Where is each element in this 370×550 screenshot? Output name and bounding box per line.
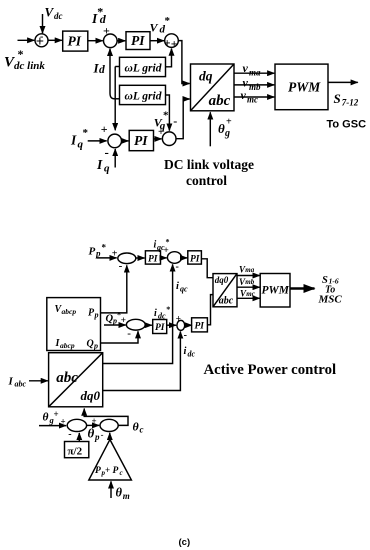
svg-text:MSC: MSC: [318, 293, 343, 305]
svg-text:q: q: [104, 163, 110, 175]
svg-text:abc: abc: [219, 296, 234, 307]
svg-text:-: -: [105, 145, 109, 160]
svg-text:I: I: [96, 157, 103, 172]
svg-text:θ: θ: [218, 121, 225, 136]
svg-text:p: p: [93, 342, 98, 351]
svg-text:mc: mc: [246, 290, 255, 298]
svg-text:Active Power control: Active Power control: [204, 362, 337, 378]
svg-text:i: i: [154, 308, 157, 319]
svg-text:PI: PI: [131, 33, 145, 48]
svg-text:p: p: [94, 432, 100, 442]
svg-text:PI: PI: [155, 323, 165, 333]
svg-text:*: *: [102, 243, 107, 253]
svg-text:-: -: [119, 260, 123, 272]
svg-text:control: control: [186, 173, 227, 188]
svg-text:θ: θ: [43, 412, 49, 424]
svg-text:PI: PI: [68, 34, 82, 49]
svg-text:-: -: [68, 429, 71, 440]
svg-text:i: i: [176, 281, 179, 292]
svg-text:+: +: [105, 465, 110, 475]
svg-text:θ: θ: [116, 486, 123, 500]
svg-text:p: p: [94, 311, 99, 320]
svg-text:+: +: [103, 24, 110, 38]
svg-text:-: -: [184, 330, 187, 341]
svg-text:dq0: dq0: [215, 275, 229, 285]
svg-text:θ: θ: [88, 425, 95, 440]
svg-text:+: +: [171, 37, 178, 51]
svg-text:v: v: [243, 61, 249, 75]
svg-text:S: S: [334, 91, 341, 106]
svg-text:qc: qc: [180, 285, 188, 294]
svg-text:abc: abc: [15, 380, 27, 389]
svg-text:PWM: PWM: [288, 80, 321, 95]
svg-text:I: I: [70, 133, 77, 148]
svg-text:To GSC: To GSC: [327, 118, 367, 130]
svg-text:V: V: [150, 21, 159, 35]
svg-text:+: +: [61, 417, 66, 427]
svg-text:7-12: 7-12: [342, 98, 359, 108]
svg-text:+: +: [112, 248, 118, 259]
svg-text:mb: mb: [249, 82, 261, 92]
svg-text:θ: θ: [133, 420, 140, 434]
svg-text:-: -: [176, 262, 179, 273]
svg-text:+: +: [164, 36, 171, 50]
svg-text:I: I: [8, 376, 14, 388]
svg-text:abcp: abcp: [62, 307, 77, 316]
svg-text:PI: PI: [195, 322, 205, 332]
svg-text:c: c: [120, 469, 123, 477]
svg-text:ωL grid: ωL grid: [125, 91, 162, 103]
svg-text:-: -: [40, 32, 43, 43]
svg-text:*: *: [165, 15, 171, 27]
svg-text:Q: Q: [87, 339, 94, 350]
svg-text:*: *: [166, 238, 170, 247]
svg-text:PWM: PWM: [262, 285, 290, 297]
svg-text:DC link voltage: DC link voltage: [164, 157, 254, 172]
svg-text:c: c: [140, 425, 144, 435]
svg-text:+: +: [176, 315, 181, 325]
svg-text:ωL grid: ωL grid: [125, 63, 162, 75]
svg-text:q: q: [78, 139, 84, 151]
svg-text:dq0: dq0: [81, 388, 101, 403]
svg-text:P: P: [95, 466, 101, 476]
svg-text:ma: ma: [249, 68, 261, 78]
svg-text:+: +: [121, 316, 126, 326]
svg-text:m: m: [123, 491, 130, 501]
svg-text:*: *: [83, 127, 89, 139]
svg-text:dc link: dc link: [14, 60, 45, 72]
svg-text:+: +: [226, 117, 232, 128]
svg-text:V: V: [45, 5, 55, 20]
svg-text:-: -: [101, 430, 104, 440]
svg-text:dc: dc: [188, 350, 196, 359]
svg-text:PI: PI: [134, 133, 148, 148]
svg-text:abc: abc: [56, 370, 78, 386]
svg-text:-: -: [173, 114, 177, 128]
svg-text:+: +: [158, 127, 164, 138]
svg-text:+: +: [163, 246, 168, 256]
svg-text:g: g: [224, 128, 230, 139]
svg-text:dq: dq: [199, 69, 213, 84]
svg-text:+: +: [101, 122, 108, 136]
svg-text:P: P: [89, 246, 96, 258]
svg-text:*: *: [18, 47, 24, 61]
svg-text:d: d: [99, 64, 105, 76]
svg-text:(c): (c): [179, 537, 191, 548]
svg-text:PI: PI: [190, 255, 200, 265]
svg-text:P: P: [113, 466, 119, 476]
svg-text:abcp: abcp: [60, 341, 75, 350]
svg-text:dc: dc: [158, 312, 166, 321]
svg-text:*: *: [166, 305, 170, 314]
svg-text:ma: ma: [245, 266, 254, 274]
svg-text:mc: mc: [247, 94, 258, 104]
svg-text:π/2: π/2: [68, 446, 83, 458]
svg-text:PI: PI: [148, 255, 158, 265]
svg-text:mb: mb: [245, 278, 254, 286]
svg-text:-: -: [127, 328, 131, 340]
svg-text:abc: abc: [209, 93, 231, 109]
svg-text:i: i: [184, 346, 187, 357]
svg-text:+: +: [54, 409, 59, 419]
svg-text:v: v: [241, 88, 247, 102]
svg-text:p: p: [95, 249, 101, 259]
svg-text:dc: dc: [54, 11, 63, 21]
svg-text:*: *: [163, 110, 169, 122]
